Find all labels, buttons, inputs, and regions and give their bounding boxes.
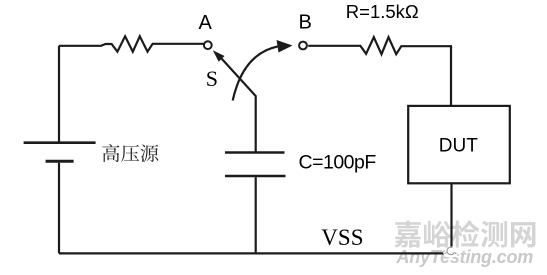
svg-text:B: B (299, 12, 312, 34)
svg-text:S: S (206, 66, 218, 91)
svg-text:A: A (199, 12, 213, 34)
svg-text:C=100pF: C=100pF (299, 152, 377, 174)
svg-text:R=1.5kΩ: R=1.5kΩ (346, 1, 419, 22)
svg-text:AnyTesting.com: AnyTesting.com (396, 247, 534, 267)
svg-text:DUT: DUT (439, 135, 478, 156)
svg-text:VSS: VSS (321, 225, 363, 250)
